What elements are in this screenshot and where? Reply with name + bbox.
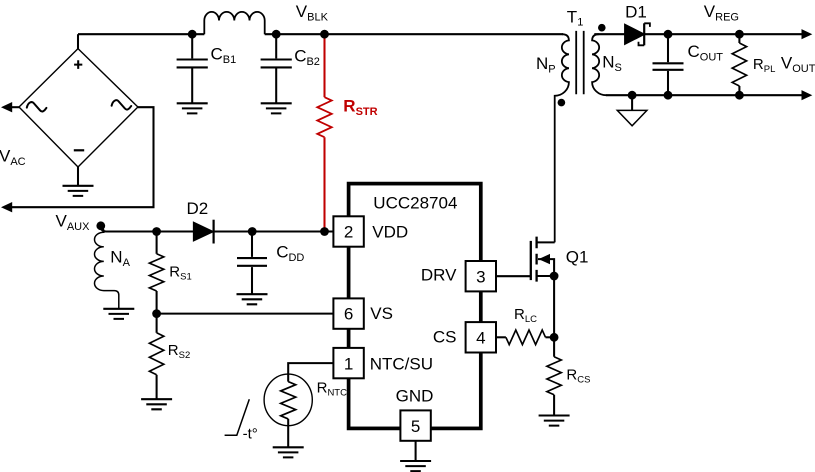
junction dot CS node [550,333,559,342]
Q1 body wire with arrow [538,259,554,276]
bridge plus sign [74,60,82,69]
svg-text:5: 5 [411,417,420,436]
capacitor CB2 [261,34,292,103]
arrow VAC top [1,102,12,112]
wire VAC top line [12,106,20,108]
pin box 6 [333,298,363,328]
resistor RS2 [149,314,163,400]
Q1 body arrow head [539,254,551,264]
svg-text:-t°: -t° [243,425,258,442]
ground RS2 [141,399,172,409]
diode D2 [194,220,214,244]
mosfet Q1 [496,237,555,357]
IC UCC28704 block [349,184,481,429]
wire secondary bottom rail [606,94,802,96]
diode D1 (schottky) [625,23,650,45]
capacitor COUT [653,34,684,95]
svg-text:D2: D2 [187,199,209,218]
wire VAUX node to VDD pin [101,226,334,232]
junction dot Q1 source [550,272,559,281]
pin box 1 [333,348,363,378]
wire secondary top to D1 [594,33,625,35]
resistor RS1 [149,232,163,314]
svg-text:6: 6 [344,304,353,323]
phase dot secondary [598,24,606,32]
junction dot bottom rail at gnd [628,91,637,100]
wire VBLK rail right [265,33,563,35]
bridge minus sign [74,149,84,151]
wire D1 cathode to VREG arrow [644,33,802,35]
ground bridge [63,186,94,196]
arrow VAC bottom [1,202,12,212]
wire pin1 to RNTC [288,363,333,382]
resistor RPL [732,34,746,95]
junction dot bottom rail at COUT [664,91,673,100]
bridge ac symbol right [112,100,132,109]
Q1 drain horizontal [537,241,555,243]
pin box 3 [466,261,496,291]
transformer T1 core [576,31,584,94]
wire pin5 to ground [415,441,417,461]
capacitor CB1 [177,34,208,103]
ground CDD [237,294,268,304]
junction dot RS1 top [152,227,161,236]
pin box 2 [333,216,363,246]
inductor L1 [204,12,264,34]
svg-text:DRV: DRV [421,266,457,285]
ground secondary (triangle) [617,95,647,126]
bridge ac symbol left [27,102,47,111]
junction dot VBLK at CB1 [188,30,197,39]
ground RNTC [273,447,304,457]
arrow VOUT output [802,90,813,100]
resistor RLC [495,330,554,345]
Q1 gate wire from pin 3 [496,275,531,277]
ground CB2 [261,103,292,113]
svg-text:Q1: Q1 [566,248,589,267]
junction dot VS node [152,309,161,318]
pin box 5 [400,410,430,440]
resistor RSTR (red) [317,34,331,231]
ground pin5 [400,461,431,471]
junction dot bottom rail at RPL [735,91,744,100]
phase dot primary [558,99,566,107]
junction dot CDD top [248,227,257,236]
Q1 gate bar [530,241,532,280]
transformer T1 secondary winding NS [592,34,606,95]
pin box 4 [466,322,496,352]
wire VS net [157,313,334,315]
svg-text:1: 1 [344,354,353,373]
thermistor RNTC [264,374,312,447]
wire bridge top to VBLK rail [77,34,79,48]
svg-text:UCC28704: UCC28704 [373,193,457,212]
junction dot VREG at COUT [664,30,673,39]
svg-text:D1: D1 [625,2,647,21]
resistor RCS [547,357,561,416]
winding NA [95,226,119,309]
transformer T1 primary winding NP [555,34,569,242]
junction dot VREG at RPL [735,30,744,39]
Q1 source wire [537,275,555,277]
Q1 channel bars [535,237,537,282]
ground NA [103,309,134,319]
junction dot VDD node [320,227,329,236]
bridge rectifier BR [19,49,138,167]
svg-text:VS: VS [370,304,393,323]
wire VBLK rail left [78,33,204,35]
svg-text:NTC/SU: NTC/SU [370,354,433,373]
junction dot VAUX terminal [96,221,105,230]
junction dot VBLK at CB2 [272,30,281,39]
svg-text:VDD: VDD [372,223,408,242]
svg-text:GND: GND [396,387,434,406]
svg-text:4: 4 [476,328,485,347]
arrow VREG output [802,29,813,39]
svg-text:CS: CS [433,328,457,347]
svg-text:2: 2 [344,223,353,242]
capacitor CDD [237,232,267,295]
temperature symbol -t [225,399,250,435]
wire bridge right vertex down to VAC bottom line [12,107,154,207]
wire bridge bottom to ground [77,167,79,186]
ground RCS [539,416,570,426]
junction dot VBLK at RSTR [320,30,329,39]
ground CB1 [177,103,208,113]
Q1 source down to CS node [553,276,555,357]
svg-text:3: 3 [476,267,485,286]
